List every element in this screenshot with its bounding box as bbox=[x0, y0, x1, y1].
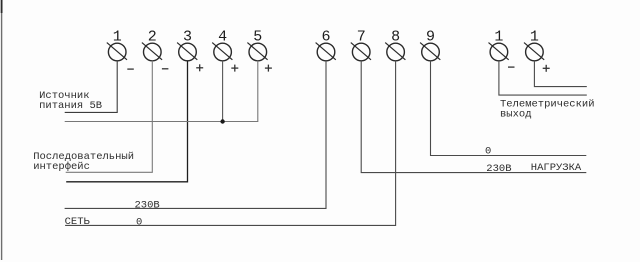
wire: terminal 8 to mains neutral 0 bbox=[65, 61, 396, 226]
minus sign telemetry bbox=[508, 66, 515, 68]
wire: telemetry minus output bbox=[499, 61, 587, 96]
terminal 9 bbox=[420, 28, 440, 61]
plus sign terminal 5 bbox=[265, 65, 272, 72]
svg-text:230В: 230В bbox=[486, 163, 511, 175]
svg-text:0: 0 bbox=[136, 217, 142, 229]
plus sign terminal 4 bbox=[231, 65, 238, 72]
svg-text:интерфейс: интерфейс bbox=[33, 160, 90, 173]
svg-text:230В: 230В bbox=[135, 200, 160, 212]
junction dot on terminal 4 wire bbox=[220, 119, 224, 123]
terminal 1 bbox=[107, 28, 127, 61]
wire: 5V supply plus rail to terminals 4 and 5 bbox=[65, 61, 258, 122]
terminal 2 bbox=[142, 28, 162, 61]
wire: terminal 6 to mains 230V bbox=[65, 61, 326, 209]
terminal 5 bbox=[247, 28, 267, 61]
terminal 3 bbox=[177, 28, 197, 61]
plus sign terminal 3 bbox=[196, 64, 203, 71]
wire: telemetry plus output bbox=[534, 61, 586, 87]
label: telemetry output bbox=[500, 98, 595, 120]
wire: terminal 4 to 5V plus rail bbox=[222, 61, 224, 122]
terminal 7 bbox=[351, 28, 371, 61]
wire: terminal 2 to serial interface bbox=[66, 61, 153, 173]
wire: terminal 3 to serial interface bbox=[66, 61, 187, 182]
svg-text:0: 0 bbox=[485, 146, 491, 158]
label: serial interface bbox=[33, 151, 134, 173]
page edge line bbox=[1, 0, 3, 260]
svg-text:СЕТЬ: СЕТЬ bbox=[65, 216, 91, 228]
terminal 1 telemetry minus bbox=[489, 28, 509, 61]
minus sign terminal 1 bbox=[127, 68, 134, 70]
wire: terminal 1 to 5V supply minus bbox=[65, 61, 118, 113]
svg-text:НАГРУЗКА: НАГРУЗКА bbox=[531, 162, 582, 174]
terminal 1 telemetry plus bbox=[524, 28, 544, 61]
label: 5V power supply bbox=[39, 90, 102, 112]
minus sign terminal 2 bbox=[162, 68, 169, 70]
svg-text:питания 5В: питания 5В bbox=[39, 100, 102, 112]
plus sign telemetry bbox=[543, 65, 550, 72]
svg-text:выход: выход bbox=[500, 108, 532, 120]
terminal 4 bbox=[212, 28, 232, 61]
wire: terminal 9 to load neutral 0 bbox=[431, 61, 587, 156]
terminal 8 bbox=[385, 28, 405, 61]
terminal 6 bbox=[316, 28, 336, 61]
wire: terminal 7 to load 230V bbox=[361, 61, 586, 173]
